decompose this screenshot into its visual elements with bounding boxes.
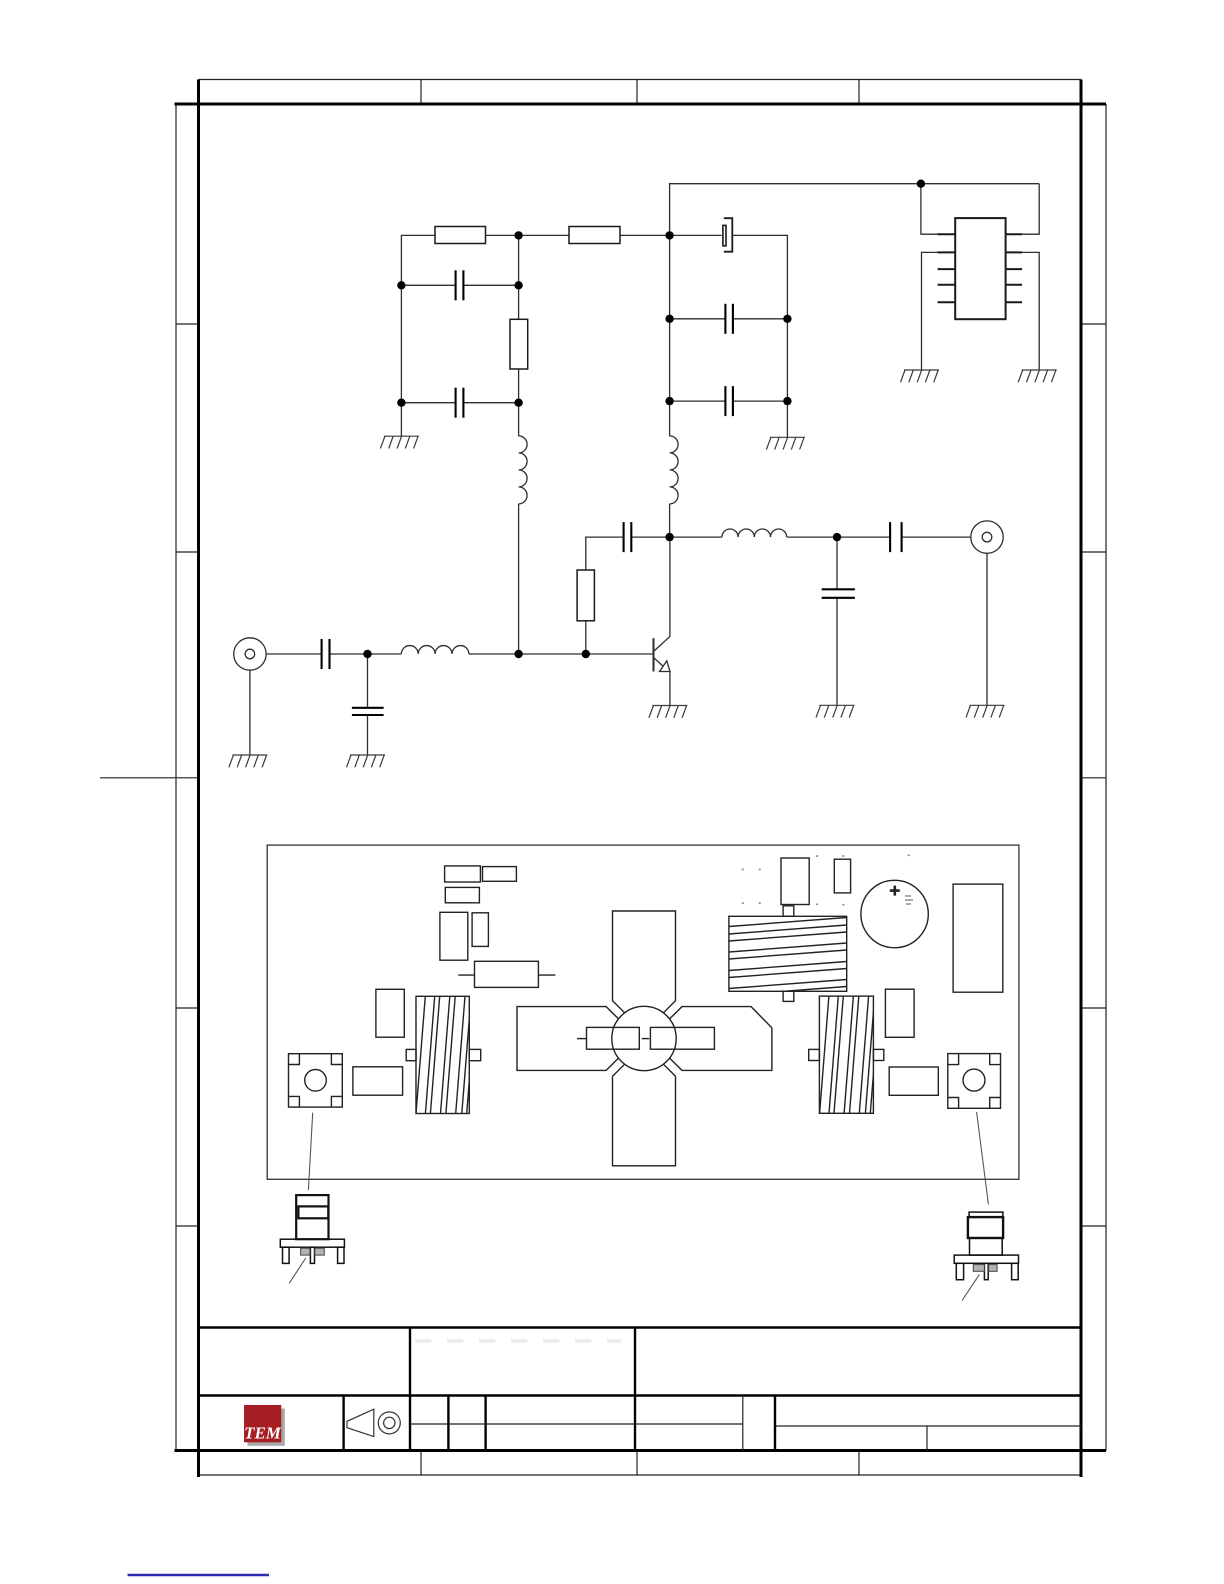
wire node A to R2 — [519, 234, 569, 236]
wire R3 to C2 node — [518, 369, 520, 403]
node C — [514, 650, 522, 658]
junction dots — [363, 180, 925, 659]
wire input node shunt drop — [367, 654, 369, 708]
legs — [283, 1247, 290, 1263]
wire C3 right lead — [733, 318, 788, 320]
flange — [280, 1239, 344, 1247]
ground (top-left section) — [380, 436, 419, 448]
resistor R1 — [435, 227, 486, 244]
thick frame top — [175, 103, 1107, 106]
Q1 emitter arrow — [660, 661, 671, 672]
node C2 left — [397, 399, 405, 407]
node C2 right — [514, 399, 522, 407]
body — [968, 1217, 1003, 1238]
transistor pad tick mid — [642, 1038, 650, 1040]
BNC connector J1 — [234, 638, 266, 670]
top band tick 2 — [636, 80, 638, 105]
wire osc node to L2 — [669, 401, 671, 436]
lower body — [970, 1238, 1003, 1255]
connector side view left — [280, 1195, 344, 1283]
wire C2 left lead — [401, 402, 455, 404]
J1 corner notches — [289, 1054, 343, 1107]
wire C5 row left — [586, 537, 624, 570]
node C1 right — [514, 281, 522, 289]
capacitor C5 plates — [623, 522, 625, 552]
thick frame left — [197, 80, 200, 1478]
capacitor C2 plates — [455, 388, 457, 418]
wire Q1 emitter to ground — [669, 672, 671, 706]
component pad rect D — [440, 912, 468, 960]
node C3 left — [665, 315, 673, 323]
inner band — [298, 1206, 328, 1218]
transistor footprint circle — [612, 1006, 676, 1070]
capacitor C1 plates — [455, 270, 457, 300]
body — [296, 1195, 328, 1239]
title block mid line — [199, 1394, 1082, 1396]
title divider x775 — [774, 1396, 776, 1451]
title divider x485 — [484, 1396, 486, 1451]
connector side view right — [954, 1212, 1018, 1300]
title block top line — [199, 1326, 1082, 1328]
ground (Q1 emitter) — [649, 706, 688, 718]
E1 plus sign — [890, 886, 900, 896]
inductor L2 (vertical) — [670, 436, 679, 504]
wire Vcc rail top — [670, 184, 1040, 236]
wire C1 left lead — [401, 284, 455, 286]
resistor R2 — [569, 227, 620, 244]
leader — [962, 1274, 979, 1300]
T3 top tab — [783, 906, 794, 917]
faint erased text in title cell — [415, 1339, 621, 1343]
left tick row4 — [176, 1007, 199, 1009]
bottom strip tick 1 — [420, 1451, 422, 1476]
wire C5 to collector node — [631, 536, 669, 538]
node E — [833, 533, 841, 541]
right tick row1 — [1081, 323, 1106, 325]
transistor footprint left arm — [517, 1007, 619, 1071]
PCB board outline — [267, 845, 1019, 1179]
silk specks — [742, 855, 910, 904]
small component right of it — [834, 859, 850, 893]
node C4 left — [665, 397, 673, 405]
wire R4 bottom lead — [585, 621, 587, 654]
top cap — [969, 1212, 1003, 1217]
top band thin line — [199, 79, 1082, 81]
J1 centre hole — [305, 1070, 327, 1092]
J2 corner notches — [948, 1054, 1001, 1109]
capacitor C6 plates — [321, 639, 323, 669]
wire BNC2 ground drop — [986, 553, 988, 705]
U1 right pin stubs — [1006, 234, 1023, 302]
crystal X1 plate — [723, 225, 726, 245]
component pad rect I — [885, 989, 914, 1037]
title divider x448 — [447, 1396, 449, 1451]
component above T3 — [781, 858, 809, 905]
wire node B to crystal — [670, 234, 722, 236]
transformer T2 body — [820, 996, 880, 1113]
node collector — [665, 533, 673, 541]
wire C8 to ground — [836, 598, 838, 706]
right tick row4 — [1081, 1007, 1106, 1009]
transistor footprint bottom arm — [613, 1064, 676, 1166]
ground (C8) — [816, 705, 855, 717]
wire R2 to node B — [620, 234, 670, 236]
wire U1 left pin2 to ground — [922, 252, 956, 370]
wire L4 to node E — [787, 536, 837, 538]
inductor L3 (horizontal) — [401, 646, 469, 654]
transistor pad right — [650, 1027, 714, 1049]
Q1 base bar — [653, 638, 655, 671]
legs — [956, 1263, 963, 1279]
electrolytic capacitor E1 — [861, 880, 928, 947]
top band tick 3 — [858, 80, 860, 105]
outer thin right border — [1105, 104, 1107, 1451]
flange — [954, 1255, 1018, 1263]
title divider x636 — [634, 1328, 636, 1451]
grounds — [229, 370, 1057, 767]
transformer T1 body — [416, 996, 476, 1113]
crystal X1 bracket — [724, 218, 733, 252]
T1 right tab — [469, 1049, 480, 1060]
E1 polarity dashes — [905, 896, 913, 904]
wire node E shunt drop — [836, 537, 838, 589]
wire C1 right lead — [463, 284, 518, 286]
projection symbol cone — [347, 1409, 374, 1436]
footer blue underline — [128, 1574, 270, 1576]
title midline right — [775, 1425, 1081, 1427]
node rail — [917, 180, 925, 188]
TITLE BLOCK — [199, 1328, 1082, 1451]
solder pads — [301, 1248, 310, 1255]
component pad rect J — [889, 1067, 938, 1095]
ground (osc section) — [766, 437, 805, 449]
projection symbol circle outer — [378, 1412, 400, 1434]
ground (U1 left) — [901, 370, 940, 382]
left tick row5 — [176, 1225, 199, 1227]
left tick row2 — [176, 551, 199, 553]
IC U1 — [955, 218, 1005, 319]
inductor L1 (vertical) — [519, 436, 528, 504]
R lead right — [538, 974, 555, 976]
wire crystal to right branch — [732, 235, 787, 318]
left centre mark long — [100, 777, 199, 779]
thick frame bottom — [175, 1449, 1107, 1452]
leader line J1 — [308, 1113, 312, 1190]
wire C6 to input node — [330, 653, 368, 655]
ground (C7) — [347, 755, 386, 767]
wire node D to Q1 base — [586, 653, 654, 655]
wire C9 to BNC2 — [902, 536, 971, 538]
connector J2 body — [948, 1054, 1001, 1109]
wire osc left vertical upper — [669, 235, 671, 318]
T3 bottom tab — [783, 991, 794, 1001]
Q1 emitter line — [654, 658, 665, 668]
node C4 right — [783, 397, 791, 405]
node B — [665, 231, 673, 239]
projection symbol circle inner — [384, 1417, 395, 1428]
transistor Q1 — [654, 638, 671, 671]
ground (U1 right) — [1018, 370, 1057, 382]
bottom strip tick 2 — [636, 1451, 638, 1476]
inductor L4 (horizontal) — [722, 529, 787, 537]
wire C2 node to L1 — [518, 403, 520, 437]
wire node A to C1 node — [518, 235, 520, 285]
wire L1 to input line — [518, 504, 520, 654]
title midline left — [410, 1423, 743, 1425]
ground (BNC2) — [966, 705, 1005, 717]
component pad rect B — [483, 867, 517, 882]
node input — [363, 650, 371, 658]
component pad rect G — [376, 989, 404, 1037]
T2 right tab — [873, 1049, 883, 1060]
svg-text:TEM: TEM — [244, 1424, 282, 1443]
leader — [289, 1258, 306, 1284]
connector J1 body — [289, 1054, 343, 1107]
node D — [582, 650, 590, 658]
bottom strip tick 3 — [858, 1451, 860, 1476]
capacitor C9 plates — [889, 522, 891, 552]
wire Q1 collector — [654, 537, 670, 651]
U1 left pin stubs — [938, 234, 956, 302]
wire osc right vertical to ground — [786, 401, 788, 437]
transformer T3 body — [729, 918, 847, 1003]
right tick row5 — [1081, 1225, 1106, 1227]
wire R1 to node A — [486, 234, 519, 236]
component pad rect C — [445, 887, 479, 902]
transistor footprint top arm — [613, 911, 676, 1013]
J2 centre hole — [963, 1069, 985, 1091]
title divider x743 thin — [742, 1396, 744, 1451]
transistor footprint right arm — [670, 1007, 772, 1071]
bottom strip thin line — [199, 1474, 1082, 1476]
resistor R4 — [577, 570, 594, 621]
capacitor C8 plates (shunt) — [822, 588, 855, 590]
wire BNC1 ground drop — [249, 670, 251, 755]
component pad rect A — [445, 866, 481, 882]
wire C7 to ground — [367, 715, 369, 755]
wire C2 right lead — [463, 402, 518, 404]
node C3 right — [783, 315, 791, 323]
ground (BNC1) — [229, 755, 268, 767]
transistor pad tick left — [577, 1038, 587, 1040]
right tick row2 — [1081, 551, 1106, 553]
component R with leads — [475, 961, 539, 987]
wire C4 left lead — [670, 400, 726, 402]
wire C3 left lead — [670, 318, 726, 320]
wire input node to L3 — [368, 653, 402, 655]
node A — [514, 231, 522, 239]
wire left vertical to ground — [400, 403, 402, 437]
wire rail right drop to U1 — [1006, 184, 1040, 235]
thick frame right — [1080, 80, 1083, 1478]
outer thin left border — [175, 104, 177, 1451]
T1 left tab — [406, 1049, 416, 1060]
resistor R3 — [510, 319, 528, 369]
wire U1 right pin2 to ground — [1006, 252, 1040, 370]
leader line J2 — [977, 1112, 989, 1204]
capacitor C7 plates (shunt) — [352, 707, 384, 709]
wire L2 to collector node — [669, 504, 671, 537]
left tick row1 — [176, 323, 199, 325]
wire rail node drop to U1 pin — [921, 184, 955, 235]
logo shadow — [248, 1409, 285, 1446]
right tick row3 — [1081, 777, 1106, 779]
tall rect component right — [953, 884, 1003, 992]
top band tick 1 — [420, 80, 422, 105]
wire left vertical upper — [400, 285, 402, 402]
wire C4 right lead — [733, 400, 788, 402]
R lead left — [458, 974, 474, 976]
node C1 left — [397, 281, 405, 289]
transistor pad left — [587, 1027, 640, 1049]
wire osc right vertical mid — [786, 319, 788, 401]
wire BNC1 to C6 — [266, 653, 321, 655]
solder pads — [973, 1265, 984, 1272]
component pad rect H — [353, 1067, 403, 1095]
capacitor C4 plates — [724, 386, 726, 416]
wire osc left vertical mid — [669, 319, 671, 401]
wire C1 node to R3 — [518, 285, 520, 319]
wire top-left rail left corner — [401, 235, 435, 285]
title divider x343 — [342, 1396, 344, 1451]
T2 left tab — [809, 1049, 820, 1060]
wire L3 to node C — [469, 653, 519, 655]
logo TEM red square — [244, 1405, 281, 1442]
title divider x927 lower — [926, 1426, 928, 1451]
component pad rect E — [472, 913, 488, 947]
BNC connector J2 — [971, 521, 1003, 553]
wire collector node to L4 — [670, 536, 722, 538]
wire node C to node D — [519, 653, 586, 655]
capacitor C3 plates — [724, 304, 726, 334]
wire node E to C9 — [837, 536, 890, 538]
title divider x411 — [409, 1328, 411, 1451]
